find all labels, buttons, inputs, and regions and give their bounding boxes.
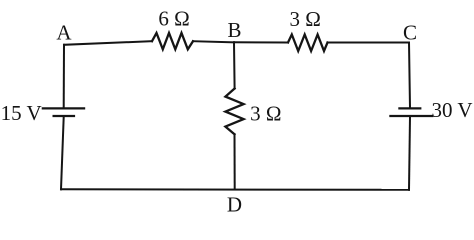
svg-text:A: A [56,20,72,44]
svg-text:B: B [227,18,241,42]
svg-text:15 V: 15 V [1,101,42,125]
svg-text:6 Ω: 6 Ω [158,6,189,30]
svg-text:3 Ω: 3 Ω [290,7,321,31]
svg-text:D: D [227,193,242,217]
svg-text:C: C [403,20,417,44]
svg-text:30 V: 30 V [431,98,472,122]
svg-text:3 Ω: 3 Ω [250,102,281,126]
